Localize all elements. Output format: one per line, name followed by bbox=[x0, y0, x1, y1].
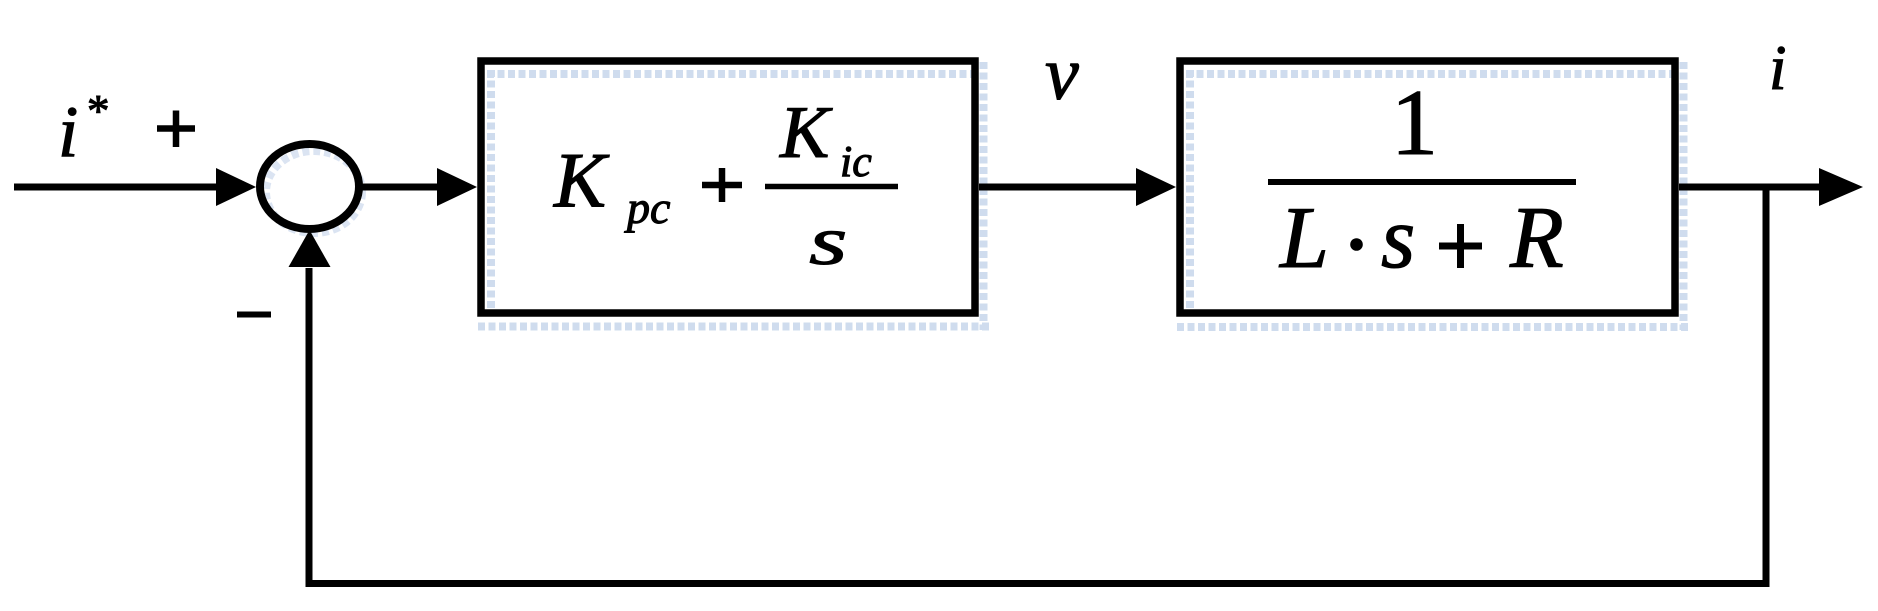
input arrowhead bbox=[216, 168, 256, 206]
shadow of block G2 (outer) bbox=[1177, 62, 1690, 330]
shadow of block G1 (inner) bbox=[487, 70, 976, 312]
svg-text:K: K bbox=[553, 137, 610, 224]
block G1: PI current controller bbox=[477, 57, 979, 317]
middle dot bbox=[1350, 238, 1363, 251]
output arrowhead bbox=[1819, 168, 1863, 206]
summing junction circle bbox=[256, 140, 363, 233]
arrowhead into block G1 bbox=[437, 168, 477, 206]
svg-text:K: K bbox=[779, 92, 833, 174]
svg-text:i: i bbox=[58, 91, 78, 172]
shadow of block G1 (outer) bbox=[478, 62, 991, 330]
plus sign in G2 bbox=[1439, 224, 1482, 268]
wire block G1 to block G2 bbox=[979, 184, 1141, 191]
svg-text:L: L bbox=[1278, 190, 1329, 287]
svg-text:pc: pc bbox=[624, 182, 670, 233]
svg-text:1: 1 bbox=[1391, 71, 1438, 175]
svg-text:s: s bbox=[809, 203, 847, 279]
input wire bbox=[14, 184, 222, 191]
feedback wire: vertical drop from output bbox=[1763, 187, 1770, 587]
plus sign in G1 bbox=[702, 168, 742, 202]
svg-text:v: v bbox=[1045, 32, 1079, 116]
fraction bar in G1 bbox=[765, 184, 898, 190]
feedback wire: bottom horizontal bbox=[306, 580, 1770, 587]
feedback arrowhead into summing junction bbox=[289, 230, 331, 267]
wire summing junction to block G1 bbox=[362, 184, 442, 191]
svg-text:i: i bbox=[1769, 33, 1787, 103]
output wire bbox=[1679, 184, 1822, 191]
svg-text:s: s bbox=[1381, 190, 1415, 287]
svg-text:R: R bbox=[1509, 190, 1564, 287]
arrowhead into block G2 bbox=[1136, 168, 1176, 206]
minus sign (feedback input) bbox=[237, 312, 271, 318]
plus sign at summing junction bbox=[157, 111, 195, 148]
fraction bar in G2 bbox=[1268, 179, 1576, 185]
svg-text:ic: ic bbox=[840, 137, 872, 186]
svg-text:*: * bbox=[87, 86, 110, 136]
shadow of summing junction bbox=[266, 151, 362, 233]
shadow of block G2 (inner) bbox=[1186, 70, 1676, 312]
block G2: plant 1/(L·s+R) bbox=[1176, 57, 1679, 317]
feedback wire: vertical rise to summing junction bbox=[306, 268, 313, 587]
